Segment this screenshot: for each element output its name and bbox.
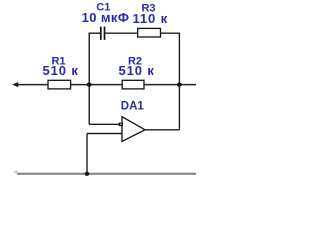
wire: feedback vertical x=179.4 — [178, 33, 180, 130]
node junction at feedback/main wire — [177, 83, 182, 87]
resistor R1 — [48, 80, 71, 89]
wire: inverting input horizontal y=125 — [89, 123, 121, 125]
wire: left vertical branch x=89.2 from top wire to inverting input — [88, 33, 90, 125]
node junction at ground wire — [85, 172, 90, 176]
capacitor C1 — [101, 27, 105, 40]
wire: non-inverting vertical x=87 down to ground wire — [86, 134, 88, 175]
svg-text:10 мкФ: 10 мкФ — [82, 10, 130, 25]
svg-text:510 к: 510 к — [118, 63, 154, 78]
op-amp DA1 — [122, 117, 145, 142]
input terminal arrow — [12, 82, 18, 87]
svg-text:110 к: 110 к — [133, 11, 169, 26]
wire: non-inverting input horizontal y=133.4 — [87, 133, 122, 135]
wire: main horizontal input line y=84.6 — [17, 84, 197, 86]
wire: top feedback horizontal y=33.2 right of C1 — [105, 32, 179, 34]
inverting input marker (small square) — [119, 123, 123, 127]
wire: bottom ground line (grey) — [17, 173, 196, 175]
resistor R3 — [138, 28, 161, 37]
svg-text:510 к: 510 к — [42, 63, 78, 78]
node junction at R1/R2/C1 — [87, 83, 92, 87]
ground-side faint arrow terminal — [13, 170, 18, 174]
wire: top feedback horizontal y=33.2 left of C1 — [89, 32, 100, 34]
svg-text:DA1: DA1 — [121, 101, 145, 113]
resistor R2 — [122, 80, 144, 89]
wire: op-amp output horizontal y=129.8 — [145, 129, 180, 131]
